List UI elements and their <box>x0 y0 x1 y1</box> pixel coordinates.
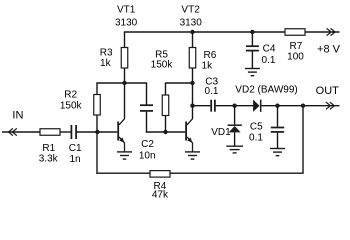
junction dot rail C4 <box>250 30 254 34</box>
junction dot VT2 collector node <box>190 104 194 108</box>
svg-text:C5: C5 <box>250 121 263 132</box>
resistor R6 1k <box>189 48 196 69</box>
junction dot R3-R2 node <box>122 81 126 85</box>
svg-text:100: 100 <box>287 52 304 63</box>
svg-text:VD2 (BAW99): VD2 (BAW99) <box>235 85 297 96</box>
connector +8V chevron <box>327 28 336 35</box>
svg-text:3130: 3130 <box>115 18 138 29</box>
wire R1 to C1 <box>60 131 71 133</box>
wire VD2 to OUT <box>262 105 340 107</box>
wire R5 top to R6 junction <box>165 82 193 84</box>
svg-text:150k: 150k <box>60 101 83 112</box>
capacitor C2 10n <box>140 105 153 111</box>
svg-text:IN: IN <box>12 110 23 122</box>
wire feedback bottom horizontal <box>96 172 303 174</box>
wire VD1 top lead <box>234 106 236 125</box>
svg-text:47k: 47k <box>152 190 169 201</box>
wire C1 to VT1 base <box>77 131 117 133</box>
ground VT1 emitter <box>117 152 132 159</box>
resistor R5 150k <box>162 95 169 116</box>
svg-text:0.1: 0.1 <box>205 86 219 97</box>
wire feedback right vertical <box>302 106 304 174</box>
svg-text:10n: 10n <box>139 151 156 162</box>
junction dot base VT1 node <box>95 130 99 134</box>
resistor R1 3.3k <box>40 129 60 136</box>
wire C5 top lead <box>277 106 279 127</box>
wire C4 bottom lead <box>251 51 253 68</box>
wire C4 top lead <box>251 32 253 46</box>
svg-text:C1: C1 <box>69 143 82 154</box>
svg-text:R7: R7 <box>290 41 303 52</box>
wire VD1 bottom lead <box>234 132 236 146</box>
wire top supply rail <box>124 31 340 33</box>
connector OUT chevron <box>326 102 335 109</box>
svg-text:VT2: VT2 <box>181 5 200 16</box>
transistor VT2 <box>185 118 193 152</box>
svg-text:3130: 3130 <box>180 18 203 29</box>
wire C2 top lead <box>146 83 148 105</box>
svg-text:C2: C2 <box>141 139 154 150</box>
connector IN chevron <box>9 128 17 135</box>
junction dot R5 base VT2 node <box>163 130 167 134</box>
svg-text:1k: 1k <box>100 58 112 69</box>
capacitor C4 0.1 <box>246 46 259 50</box>
wire R3 branch vertical <box>124 32 126 119</box>
capacitor C1 1n <box>71 125 76 139</box>
diode VD2 (BAW99) <box>253 100 261 112</box>
wire R5 vertical collector-base feedback stage2 <box>165 83 167 132</box>
ground VD1 <box>226 146 243 153</box>
svg-text:R3: R3 <box>100 47 113 58</box>
svg-text:+8 V: +8 V <box>317 43 341 55</box>
junction dot feedback node <box>301 104 305 108</box>
diode VD1 <box>228 125 242 132</box>
junction dot VD1 node <box>232 104 236 108</box>
resistor R2 150k <box>94 95 101 116</box>
ground C5 <box>270 149 285 156</box>
ground C4 <box>245 69 260 76</box>
capacitor C3 0.1 <box>211 100 215 112</box>
junction dot rail R6 <box>190 30 194 34</box>
resistor R4 47k <box>150 171 170 178</box>
svg-text:1n: 1n <box>69 154 80 165</box>
capacitor C5 0.1 <box>271 128 284 132</box>
svg-text:R6: R6 <box>204 50 217 61</box>
wire C5 bottom lead <box>277 133 279 149</box>
wire R6 branch vertical <box>192 32 194 119</box>
wire VT2 base <box>146 131 185 133</box>
wire R2 vertical collector-base feedback stage1 <box>96 83 98 132</box>
junction dot R6-R5 node <box>190 81 194 85</box>
wire feedback left vertical <box>96 132 98 174</box>
svg-text:R2: R2 <box>64 90 77 101</box>
wire VT2 collector to C3 <box>193 105 211 107</box>
wire C2 bottom lead <box>146 112 148 133</box>
resistor R3 1k <box>121 48 128 69</box>
svg-text:0.1: 0.1 <box>262 55 276 66</box>
transistor VT1 <box>117 118 125 152</box>
svg-text:VD1: VD1 <box>211 127 231 138</box>
svg-text:VT1: VT1 <box>117 5 136 16</box>
svg-text:C4: C4 <box>263 44 276 55</box>
wire C3 to VD2 <box>216 105 254 107</box>
svg-text:R1: R1 <box>42 143 55 154</box>
svg-text:OUT: OUT <box>316 85 340 97</box>
svg-text:1k: 1k <box>202 61 214 72</box>
ground VT2 emitter <box>185 152 200 159</box>
junction dot C5 node <box>275 104 279 108</box>
wire IN input <box>2 131 41 133</box>
wire R2 top to R3 junction <box>96 82 147 84</box>
svg-text:0.1: 0.1 <box>249 133 263 144</box>
svg-text:150k: 150k <box>151 60 174 71</box>
svg-text:3.3k: 3.3k <box>39 153 59 164</box>
resistor R7 100 <box>285 29 305 36</box>
